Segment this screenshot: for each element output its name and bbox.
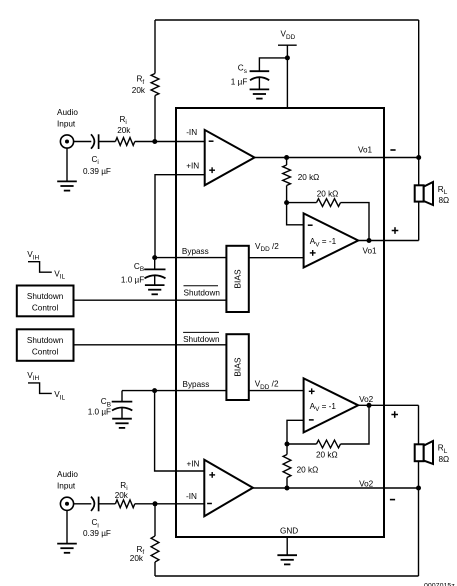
svg-text:Input: Input <box>57 119 76 128</box>
svg-text:Shutdown: Shutdown <box>27 292 64 301</box>
svg-text:-IN: -IN <box>186 128 197 137</box>
svg-text:Audio: Audio <box>57 470 78 479</box>
svg-text:Vo1: Vo1 <box>358 145 373 154</box>
svg-text:+IN: +IN <box>187 459 200 468</box>
svg-text:Bypass: Bypass <box>182 247 209 256</box>
svg-text:1.0 µF: 1.0 µF <box>121 276 144 285</box>
svg-text:BIAS: BIAS <box>232 357 242 376</box>
svg-text:20 kΩ: 20 kΩ <box>316 451 338 460</box>
svg-text:20k: 20k <box>132 86 146 95</box>
svg-text:20k: 20k <box>115 491 129 500</box>
svg-text:-IN: -IN <box>186 492 197 501</box>
svg-text:Vo2: Vo2 <box>359 479 374 488</box>
svg-text:BIAS: BIAS <box>233 269 243 288</box>
svg-text:Bypass: Bypass <box>183 380 210 389</box>
svg-text:0.39 µF: 0.39 µF <box>83 167 111 176</box>
svg-text:Control: Control <box>32 304 59 313</box>
svg-text:8Ω: 8Ω <box>439 455 450 464</box>
svg-text:Shutdown: Shutdown <box>184 288 221 297</box>
svg-text:20 kΩ: 20 kΩ <box>317 189 339 198</box>
svg-text:Audio: Audio <box>57 108 78 117</box>
svg-text:Vo1: Vo1 <box>363 246 378 255</box>
svg-text:Control: Control <box>32 348 59 357</box>
svg-text:+IN: +IN <box>186 162 199 171</box>
svg-text:GND: GND <box>280 526 298 535</box>
svg-text:0.39 µF: 0.39 µF <box>83 529 111 538</box>
svg-text:Shutdown: Shutdown <box>27 336 64 345</box>
svg-text:20 kΩ: 20 kΩ <box>298 173 320 182</box>
svg-text:8Ω: 8Ω <box>439 196 450 205</box>
svg-text:Shutdown: Shutdown <box>183 335 220 344</box>
svg-text:20k: 20k <box>130 554 144 563</box>
svg-text:1 µF: 1 µF <box>231 77 248 86</box>
svg-text:20 kΩ: 20 kΩ <box>297 466 319 475</box>
svg-text:Input: Input <box>57 482 76 491</box>
svg-text:20k: 20k <box>117 126 131 135</box>
svg-text:1.0 µF: 1.0 µF <box>88 408 111 417</box>
svg-text:Vo2: Vo2 <box>359 395 374 404</box>
